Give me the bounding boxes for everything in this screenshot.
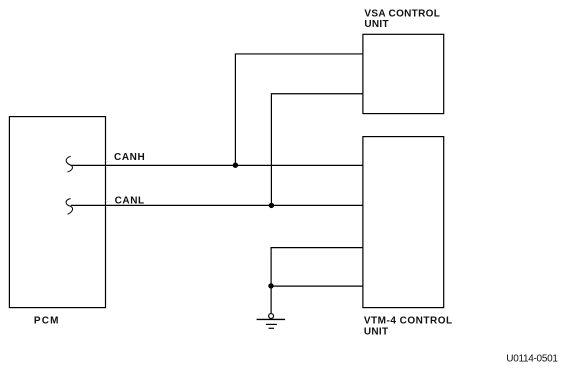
svg-text:VSA CONTROL: VSA CONTROL	[364, 8, 440, 19]
wire CANH (PCM to VTM-4 control unit)	[71, 164, 363, 166]
wire CANL (PCM to VTM-4 control unit)	[71, 204, 363, 206]
junction on CANL wire	[269, 203, 274, 208]
wire CANL branch to VSA control unit	[271, 94, 363, 206]
svg-text:U0114-0501: U0114-0501	[506, 354, 558, 365]
ground symbol	[257, 314, 286, 329]
svg-text:CANL: CANL	[115, 196, 145, 207]
wire VTM-4 ground upper branch down to ground symbol	[271, 248, 363, 313]
label VTM-4 CONTROL UNIT	[364, 316, 453, 338]
svg-text:VTM-4 CONTROL: VTM-4 CONTROL	[364, 316, 453, 327]
label VSA CONTROL UNIT	[364, 8, 440, 30]
PCM module box	[9, 117, 105, 308]
wire CANH branch to VSA control unit	[235, 54, 363, 165]
wire VTM-4 ground lower branch	[271, 285, 363, 287]
junction on CANH wire	[233, 163, 238, 168]
junction on ground wire	[268, 283, 273, 288]
break symbol on CANH wire	[66, 156, 72, 172]
VTM-4 control unit box	[363, 137, 444, 308]
svg-text:CANH: CANH	[114, 152, 145, 163]
svg-text:PCM: PCM	[34, 315, 60, 326]
svg-text:UNIT: UNIT	[364, 326, 389, 337]
VSA control unit box	[363, 34, 444, 113]
svg-text:UNIT: UNIT	[364, 19, 389, 30]
break symbol on CANL wire	[66, 199, 72, 215]
